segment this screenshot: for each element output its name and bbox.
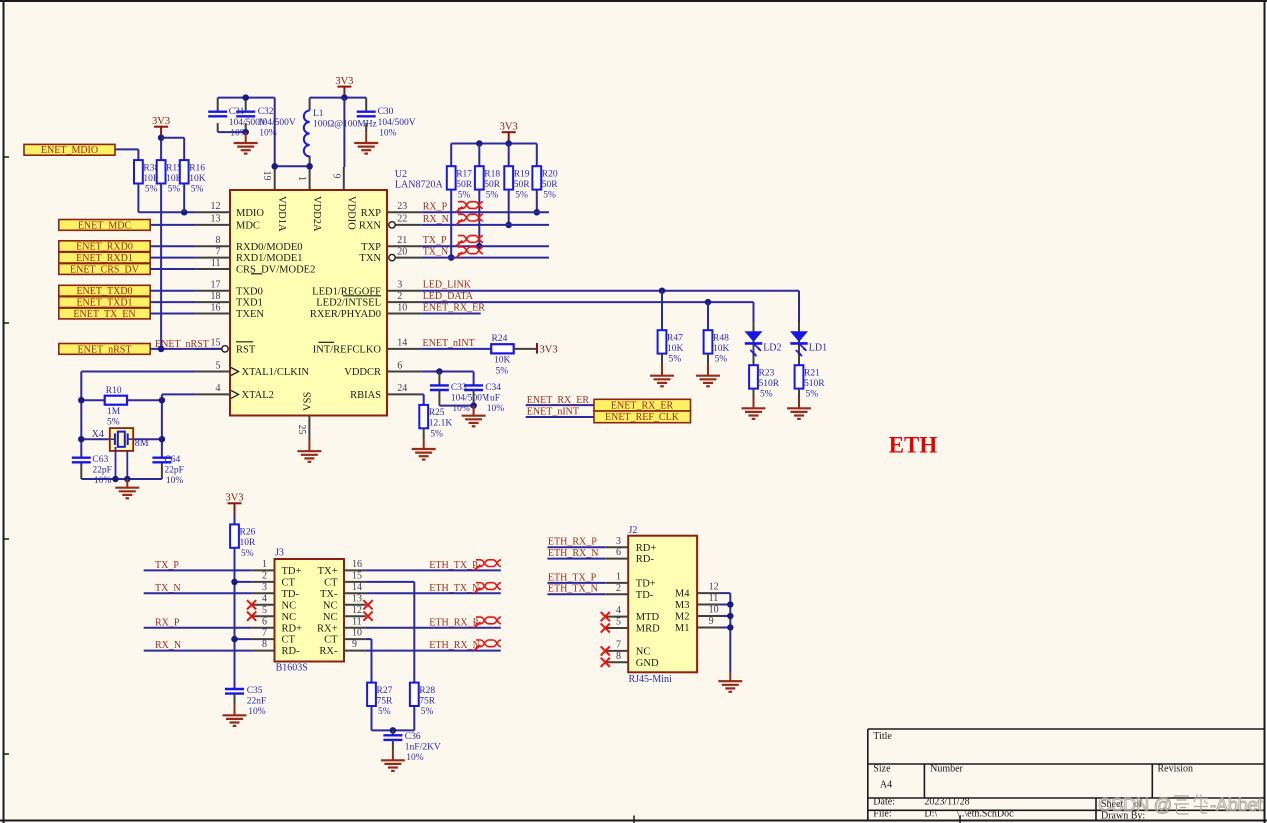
wire crystal case pins — [115, 447, 117, 479]
svg-text:1: 1 — [262, 559, 267, 570]
pin 2 LED2/INTSEL (right) — [316, 291, 421, 309]
pin 24 RBIAS (right) — [350, 383, 421, 401]
ground bars R25 — [412, 449, 436, 460]
wire C31-C32 bottom node — [218, 131, 246, 133]
svg-text:LD1: LD1 — [809, 343, 827, 354]
svg-text:TX_P: TX_P — [155, 560, 179, 571]
svg-text:C34: C34 — [485, 383, 501, 393]
ground bars crystal — [115, 488, 139, 499]
wire RX_N — [144, 650, 252, 652]
svg-text:R21: R21 — [804, 368, 820, 378]
resistor R47 — [658, 330, 684, 364]
resistor R38 — [134, 160, 160, 194]
wire R19 top — [508, 144, 510, 167]
svg-text:RX-: RX- — [319, 646, 338, 657]
wire ENET_RXD0 to pin — [150, 245, 195, 247]
svg-text:ETH_TX_P: ETH_TX_P — [429, 560, 478, 571]
svg-text:ENET_MDIO: ENET_MDIO — [41, 145, 98, 156]
port ENET_RXD1 — [59, 252, 150, 264]
differential pair marker ETH_TX_N — [474, 588, 481, 594]
J3 pin 11 RX+ — [317, 616, 366, 634]
wire LED_LINK (pin 3) — [421, 290, 799, 292]
inductor L1 — [304, 98, 377, 157]
svg-text:VDDIO: VDDIO — [345, 196, 356, 230]
op-amp U2 body (LAN8720A PHY) — [230, 190, 387, 416]
wire 3V3 top rail — [310, 97, 367, 99]
wire R16 bottom — [183, 184, 185, 213]
svg-text:18: 18 — [211, 291, 221, 302]
svg-text:13: 13 — [352, 593, 362, 604]
port ENET_TX_EN — [59, 308, 150, 320]
wire ETH_TX_N to J2 — [547, 593, 605, 595]
svg-text:5%: 5% — [760, 390, 773, 400]
J2 pin 12 M4 — [675, 582, 720, 600]
wire ETH_RX_P — [366, 627, 501, 629]
pin 7 RXD1/MODE1 (left) — [196, 246, 303, 264]
svg-text:CSDN @: CSDN @ — [1098, 794, 1172, 815]
ground under C36 — [392, 740, 394, 750]
svg-text:C35: C35 — [247, 686, 263, 696]
wire ENET_nRST to pin — [150, 348, 221, 350]
svg-text:LAN8720A: LAN8720A — [395, 180, 444, 191]
wire R20 top — [536, 144, 538, 167]
svg-text:5: 5 — [216, 360, 221, 371]
watermark CSDN — [1098, 794, 1262, 815]
svg-text:ENET_nINT: ENET_nINT — [527, 407, 579, 418]
svg-text:RX_N: RX_N — [155, 640, 181, 651]
resistor R10 (horizontal) — [81, 386, 162, 427]
node R48 tap — [705, 299, 712, 306]
wire ETH_RX_N — [366, 650, 501, 652]
power 3V3 (pullups) — [152, 116, 170, 138]
wire TX_N — [421, 257, 549, 259]
svg-text:3V3: 3V3 — [335, 76, 353, 87]
svg-text:ETH_RX_N: ETH_RX_N — [429, 640, 480, 651]
ground bars C35 — [223, 715, 247, 726]
resistor R16 — [180, 160, 206, 194]
resistor R18 — [475, 166, 501, 200]
wire ETH_RX_P to J2 — [547, 546, 605, 548]
ground bars C36 — [381, 760, 405, 771]
resistor R28 — [410, 683, 436, 717]
pin 23 RXP (right) — [361, 201, 422, 219]
wire RX_N — [421, 224, 549, 226]
svg-text:TXEN: TXEN — [236, 309, 264, 320]
svg-text:1nF/2KV: 1nF/2KV — [405, 743, 441, 753]
svg-text:ETH_RX_N: ETH_RX_N — [548, 548, 599, 559]
svg-text:7: 7 — [262, 628, 267, 639]
crystal X4 — [81, 428, 162, 451]
pin 5 XTAL1/CLKIN (left) — [196, 360, 310, 378]
svg-text:XTAL2: XTAL2 — [242, 390, 274, 401]
ground under R23 — [753, 389, 755, 398]
wire XTAL1 row — [81, 371, 195, 373]
capacitor C36 — [392, 730, 394, 735]
svg-text:6: 6 — [397, 360, 402, 371]
wire pin19-pin1 connect — [275, 165, 310, 167]
svg-text:R19: R19 — [514, 169, 530, 179]
capacitor C63 — [80, 462, 82, 479]
svg-text:RXN: RXN — [359, 221, 382, 232]
svg-text:15: 15 — [211, 338, 221, 349]
svg-text:5%: 5% — [168, 185, 181, 195]
svg-text:50R: 50R — [542, 180, 559, 190]
svg-text:R17: R17 — [456, 169, 472, 179]
svg-text:M1: M1 — [675, 623, 690, 634]
svg-text:MTD: MTD — [636, 612, 660, 623]
svg-text:10%: 10% — [406, 753, 424, 763]
svg-text:RXD1/MODE1: RXD1/MODE1 — [236, 253, 303, 264]
wire ENET_nINT (pin 14) — [421, 348, 491, 350]
svg-text:NC: NC — [323, 612, 338, 623]
svg-text:TXD1: TXD1 — [236, 298, 263, 309]
svg-text:10K: 10K — [713, 344, 730, 354]
wire MDIO row (pin 12) — [138, 211, 195, 213]
svg-text:10%: 10% — [94, 476, 112, 486]
pin 17 TXD0 (left) — [196, 280, 263, 298]
wire pin19 column vertical — [274, 98, 276, 167]
svg-text:12: 12 — [211, 201, 221, 212]
svg-text:10%: 10% — [379, 129, 397, 139]
svg-text:ETH_TX_P: ETH_TX_P — [548, 572, 597, 583]
wire R18 top — [478, 144, 480, 167]
svg-text:2023/11/28: 2023/11/28 — [924, 797, 969, 808]
svg-text:J2: J2 — [629, 525, 638, 536]
svg-text:NC: NC — [282, 612, 297, 623]
svg-text:50R: 50R — [484, 180, 501, 190]
node CT pin7 — [231, 636, 238, 643]
svg-text:ENET_RX_ER: ENET_RX_ER — [423, 303, 486, 314]
wire R20 bottom — [536, 190, 538, 213]
svg-text:17: 17 — [211, 280, 221, 291]
svg-text:3: 3 — [262, 582, 267, 593]
wire C33/C34 bottom node — [438, 390, 440, 406]
svg-text:MRD: MRD — [636, 624, 660, 635]
svg-text:75R: 75R — [419, 696, 436, 706]
svg-text:3V3: 3V3 — [500, 122, 518, 133]
wire C33 column — [438, 372, 440, 386]
ground under C31/C32 — [245, 132, 247, 143]
wire ENET_TXD1 to pin — [150, 301, 195, 303]
svg-text:13: 13 — [211, 214, 221, 225]
ground bars R23 — [742, 408, 766, 419]
svg-text:B1603S: B1603S — [276, 663, 308, 674]
svg-text:RD-: RD- — [636, 554, 655, 565]
svg-text:8: 8 — [262, 639, 267, 650]
wire ENET_RXD1 to pin — [150, 257, 195, 259]
J3 pin 1 TD+ — [252, 559, 302, 577]
svg-text:4: 4 — [262, 593, 267, 604]
pin 10 RXER/PHYAD0 (right) — [310, 302, 421, 320]
transformer J3 body (B1603S) — [275, 559, 345, 662]
port ENET_MDC — [59, 220, 150, 232]
svg-text:23: 23 — [397, 201, 407, 212]
wire LD1 column — [798, 291, 800, 322]
port ENET_TXD1 — [59, 297, 150, 309]
ground bars C33/C34 — [462, 416, 486, 427]
wire RX_P — [144, 627, 252, 629]
node rail R18 — [476, 140, 483, 147]
svg-text:5%: 5% — [145, 185, 158, 195]
capacitor C34 — [464, 383, 504, 414]
ground at VSS pin 25 — [308, 440, 310, 452]
ground bars J2 — [718, 681, 742, 692]
port ENET_nRST — [59, 344, 150, 356]
wire VDDCR (pin 6) — [421, 371, 473, 373]
svg-text:TD-: TD- — [282, 589, 300, 600]
svg-text:ENET_RX_ER: ENET_RX_ER — [611, 400, 674, 411]
svg-text:M4: M4 — [675, 589, 690, 600]
resistor R23 — [749, 365, 780, 399]
node R20 tap — [534, 209, 541, 216]
power 3V3 bar (right of R24) — [537, 343, 558, 355]
wire ENET_TXD0 to pin — [150, 290, 195, 292]
J2 pin 4 MTD — [601, 605, 660, 623]
svg-text:VSS: VSS — [302, 392, 313, 411]
svg-text:VDD2A: VDD2A — [311, 196, 322, 232]
svg-text:R27: R27 — [377, 686, 393, 696]
ground bars C30 — [354, 143, 378, 154]
svg-text:5%: 5% — [430, 429, 443, 439]
svg-text:22pF: 22pF — [164, 465, 184, 475]
pin 11 CRS_DV/MODE2 (left) — [196, 258, 316, 276]
resistor R24 (horizontal) — [491, 334, 514, 376]
svg-text:5%: 5% — [107, 417, 120, 427]
svg-text:RST: RST — [236, 345, 256, 356]
differential pair marker ETH_RX_N — [474, 645, 481, 651]
svg-text:LD2: LD2 — [763, 343, 781, 354]
svg-text:10K: 10K — [667, 344, 684, 354]
node rail R19 — [505, 140, 512, 147]
pin 19 VDD1A (top) — [261, 166, 287, 232]
svg-text:10R: 10R — [240, 538, 257, 548]
svg-text:File:: File: — [873, 809, 891, 820]
ground under C30 — [365, 132, 367, 143]
svg-text:ENET_RXD1: ENET_RXD1 — [76, 253, 133, 264]
svg-text:Date:: Date: — [873, 797, 895, 808]
wire to port ENET_REF_CLK — [526, 416, 594, 418]
pin 22 RXN (right) — [359, 214, 421, 232]
svg-text:5%: 5% — [496, 366, 509, 376]
svg-text:10K: 10K — [494, 356, 511, 366]
svg-text:ENET_nRST: ENET_nRST — [78, 344, 132, 355]
svg-text:TX-: TX- — [320, 589, 338, 600]
svg-text:ENET_MDC: ENET_MDC — [78, 220, 132, 231]
node C33 tap — [436, 368, 443, 375]
J2 pin 10 M2 — [675, 605, 720, 623]
differential pair marker RX_P — [456, 207, 463, 213]
ground bars R48 — [696, 376, 720, 387]
capacitor C64 — [161, 462, 163, 479]
svg-text:CT: CT — [324, 578, 338, 589]
svg-text:3V3: 3V3 — [152, 116, 170, 127]
J3 pin 2 CT — [252, 571, 296, 589]
wire right crystal column — [161, 400, 163, 458]
wire top rail C31/C32 to pin19 column — [218, 97, 275, 99]
svg-text:ETH_TX_N: ETH_TX_N — [429, 583, 479, 594]
svg-text:M3: M3 — [675, 600, 690, 611]
svg-text:TXP: TXP — [361, 242, 381, 253]
svg-text:8M: 8M — [135, 438, 149, 449]
J3 pin 12 NC — [323, 605, 373, 623]
wire ETH_TX_N — [366, 592, 501, 594]
J2 pin 2 TD- — [605, 583, 653, 601]
J3 pin 6 RD+ — [252, 616, 302, 634]
svg-text:RD+: RD+ — [282, 623, 303, 634]
pin 13 MDC (left) — [196, 214, 260, 232]
svg-text:RX_N: RX_N — [423, 214, 449, 225]
svg-text:5%: 5% — [486, 191, 499, 201]
J3 pin 9 RX- — [319, 639, 365, 657]
differential pair marker ETH_RX_P — [474, 622, 481, 628]
svg-text:TD-: TD- — [636, 590, 654, 601]
wire R24 to 3V3 bar — [514, 348, 537, 350]
port ENET_TXD0 — [59, 285, 150, 297]
ground under C35 — [234, 694, 236, 704]
wire R26 bottom / CT column — [234, 548, 236, 689]
svg-text:TX+: TX+ — [318, 566, 338, 577]
pin 6 VDDCR (right) — [344, 360, 421, 378]
svg-text:5%: 5% — [515, 191, 528, 201]
svg-text:CT: CT — [282, 635, 296, 646]
svg-text:4: 4 — [216, 383, 221, 394]
wire R38 bottom to MDIO row — [137, 184, 139, 213]
node R47 tap — [659, 287, 666, 294]
node M2 — [727, 613, 734, 620]
svg-text:XTAL1/CLKIN: XTAL1/CLKIN — [242, 367, 310, 378]
node pin1 junction — [306, 163, 313, 170]
J2 pin 6 RD- — [605, 547, 654, 565]
svg-text:5: 5 — [616, 617, 621, 628]
ground under crystal — [126, 479, 128, 488]
node X4 right — [159, 436, 166, 443]
svg-text:ETH_RX_P: ETH_RX_P — [548, 537, 597, 548]
pin 16 TXEN (left) — [196, 302, 265, 320]
capacitor C30 — [365, 98, 367, 112]
J2 pin 8 GND — [601, 651, 659, 669]
pin 12 MDIO (left) — [196, 201, 265, 219]
wire termination top rail — [451, 143, 537, 145]
svg-text:RBIAS: RBIAS — [350, 390, 381, 401]
svg-text:LED2/INTSEL: LED2/INTSEL — [316, 298, 381, 309]
pin 3 LED1/REGOFF (right) — [312, 280, 421, 298]
svg-text:\..\eth.SchDoc: \..\eth.SchDoc — [957, 809, 1014, 820]
ground under C33/C34 — [473, 406, 475, 416]
ground bars R21 — [787, 408, 811, 419]
svg-text:7: 7 — [616, 640, 621, 651]
svg-text:NC: NC — [282, 600, 297, 611]
svg-text:510R: 510R — [804, 379, 825, 389]
ground under J2 shield — [729, 672, 731, 681]
wire LD2 column — [753, 302, 755, 322]
wire RBIAS (pin 24) — [421, 393, 423, 395]
node M3 — [727, 601, 734, 608]
LED LD2 — [745, 322, 782, 365]
capacitor C32 — [245, 98, 247, 112]
svg-text:C30: C30 — [378, 107, 394, 117]
J3 pin 3 TD- — [252, 582, 300, 600]
svg-text:22nF: 22nF — [247, 697, 267, 707]
differential pair marker RX_N — [456, 219, 463, 225]
svg-text:R48: R48 — [713, 333, 729, 343]
node C36 tap — [390, 727, 397, 734]
node R19 tap — [505, 222, 512, 229]
svg-text:104/500V: 104/500V — [451, 393, 489, 403]
differential pair marker ETH_TX_P — [474, 565, 481, 571]
differential pair marker TX_P — [456, 241, 463, 247]
node C34 ground node — [470, 402, 477, 409]
resistor R21 — [795, 365, 826, 399]
ground bars VSS — [297, 451, 321, 462]
svg-text:10: 10 — [709, 605, 719, 616]
svg-text:ENET_TX_EN: ENET_TX_EN — [73, 309, 135, 320]
svg-text:RXER/PHYAD0: RXER/PHYAD0 — [310, 309, 381, 320]
svg-text:ENET_CRS_DV: ENET_CRS_DV — [70, 264, 140, 275]
ground bars C31/C32 — [234, 143, 258, 154]
svg-text:50R: 50R — [456, 180, 473, 190]
svg-text:NC: NC — [636, 647, 651, 658]
svg-text:R28: R28 — [419, 686, 435, 696]
node case pin right — [124, 476, 131, 483]
svg-text:4: 4 — [616, 605, 621, 616]
svg-text:10%: 10% — [259, 129, 277, 139]
port ENET_RX_ER (sheet entry) — [594, 399, 691, 411]
resistor R17 — [447, 166, 473, 200]
svg-text:CT: CT — [324, 635, 338, 646]
resistor R27 — [367, 683, 393, 717]
svg-text:2: 2 — [262, 571, 267, 582]
svg-text:16: 16 — [352, 559, 362, 570]
svg-text:A4: A4 — [880, 780, 892, 791]
svg-text:CT: CT — [282, 578, 296, 589]
J2 pin 5 MRD — [601, 617, 660, 635]
capacitor C32 — [236, 107, 296, 139]
resistor R19 — [504, 166, 530, 200]
svg-text:LED_DATA: LED_DATA — [423, 291, 474, 302]
svg-text:19: 19 — [261, 171, 272, 181]
svg-text:5%: 5% — [543, 191, 556, 201]
J2 pin 11 M3 — [675, 593, 720, 611]
resistor R48 — [704, 330, 730, 364]
J3 pin 16 TX+ — [318, 559, 366, 577]
wire R19 bottom — [508, 190, 510, 225]
svg-text:TX_N: TX_N — [155, 583, 181, 594]
wire CT pin10 to R27 — [366, 638, 372, 640]
svg-text:5%: 5% — [715, 355, 728, 365]
svg-text:7: 7 — [216, 246, 221, 257]
resistor R25 — [419, 405, 452, 439]
svg-text:Number: Number — [930, 763, 963, 774]
svg-text:TX_P: TX_P — [423, 235, 447, 246]
wire R48 column — [707, 302, 709, 330]
wire VDDIO column — [343, 98, 345, 167]
svg-text:ENET_REF_CLK: ENET_REF_CLK — [605, 412, 680, 423]
pin 8 RXD0/MODE0 (left) — [196, 235, 303, 253]
wire ETH_RX_N to J2 — [547, 558, 605, 560]
wire CT pin7 — [235, 638, 252, 640]
pin 25 VSS (bottom) — [296, 392, 313, 440]
svg-text:104/500V: 104/500V — [378, 118, 416, 128]
svg-text:9: 9 — [709, 616, 714, 627]
svg-text:M2: M2 — [675, 612, 690, 623]
resistor R15 — [157, 160, 183, 194]
svg-text:12: 12 — [352, 605, 362, 616]
connector J2 body (RJ45-Mini) — [628, 536, 697, 673]
svg-text:11: 11 — [352, 616, 362, 627]
J3 pin 8 RD- — [252, 639, 300, 657]
svg-text:X4: X4 — [92, 429, 104, 440]
power 3V3 (R26) — [225, 493, 243, 515]
